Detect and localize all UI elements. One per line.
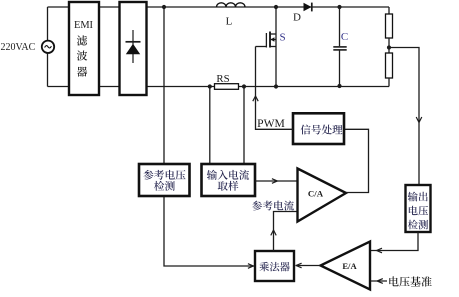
wire divider bottom lead xyxy=(388,78,390,87)
label 信号处理 xyxy=(301,125,343,135)
label 参考电流 (reference current) xyxy=(252,201,294,211)
svg-text:C: C xyxy=(341,31,348,43)
node RS-right (bottom rail junction) xyxy=(242,84,246,88)
svg-text:EMI: EMI xyxy=(74,20,94,31)
block signal processing (信号处理) xyxy=(293,113,344,144)
label 输入电流 xyxy=(207,170,249,180)
svg-text:220VAC: 220VAC xyxy=(1,42,36,53)
svg-text:RS: RS xyxy=(216,73,229,85)
arrow up on PWM drive xyxy=(253,96,258,101)
label 器 xyxy=(77,67,87,77)
wire multiplier output to C/A xyxy=(274,212,298,252)
wire divider top lead xyxy=(388,7,390,14)
label 波 xyxy=(77,50,87,60)
node RS-left (bottom rail junction) xyxy=(208,84,212,88)
wire bottom rail (return) xyxy=(48,86,390,88)
label D xyxy=(293,12,301,24)
node C-top (capacitor top junction) xyxy=(337,5,341,9)
label 检测 xyxy=(408,220,428,230)
svg-text:S: S xyxy=(279,32,285,44)
wire RS left sense lead xyxy=(209,87,211,165)
wire voltage reference input xyxy=(371,280,388,282)
label 检测 (line2) xyxy=(154,181,175,191)
capacitor C xyxy=(333,7,346,87)
label 220VAC xyxy=(1,42,36,53)
label 滤 xyxy=(77,35,87,45)
wire node A to reference-voltage-detect block xyxy=(163,7,165,164)
node A (top rail junction to reference voltage detect) xyxy=(162,5,166,9)
wire tap to output-voltage-detect xyxy=(389,48,419,186)
bridge rectifier block xyxy=(120,2,147,95)
wire RS right sense lead xyxy=(243,87,245,165)
wire reference-voltage-detect to multiplier xyxy=(164,196,254,266)
wire C/A output to signal processing xyxy=(344,129,369,192)
label C xyxy=(341,31,348,43)
arrow into E/A upper input xyxy=(377,248,383,253)
arrow into E/A lower input xyxy=(377,279,383,284)
resistor R1 (output divider upper) xyxy=(386,14,393,38)
label 参考电压 xyxy=(143,170,185,180)
label 取样 (line2) xyxy=(218,181,239,191)
arrow up on multiplier output xyxy=(271,230,276,235)
arrow into multiplier right input xyxy=(296,263,302,268)
resistor R2 (output divider lower) xyxy=(386,53,393,78)
svg-text:L: L xyxy=(226,16,233,28)
svg-text:D: D xyxy=(293,12,301,24)
node MOSFET source junction xyxy=(274,84,278,88)
wire output-detect to E/A input xyxy=(371,232,419,251)
diode D (boost diode) xyxy=(304,3,312,12)
transistor S (power MOSFET) xyxy=(266,7,276,87)
arrow down into output-voltage-detect xyxy=(416,117,422,123)
label E/A xyxy=(342,261,357,271)
op-amp E/A (error amplifier) xyxy=(321,242,371,290)
label PWM xyxy=(257,117,285,130)
label S xyxy=(279,32,285,44)
label L xyxy=(226,16,233,28)
svg-text:PWM: PWM xyxy=(257,117,285,130)
svg-text:E/A: E/A xyxy=(342,261,357,271)
label 乘法器 xyxy=(259,262,289,272)
wire top rail (rectifier output to boost input) xyxy=(48,6,390,8)
wire PWM drive to gate xyxy=(256,47,294,130)
wire left vertical from AC source xyxy=(47,7,49,87)
node B (drain junction on top rail) xyxy=(274,5,278,9)
label EMI xyxy=(74,20,94,31)
label 电压基准 (voltage reference) xyxy=(389,276,431,286)
wire divider middle lead xyxy=(388,38,390,53)
label C/A xyxy=(308,189,324,199)
arrow on sample wire xyxy=(272,179,278,184)
label RS xyxy=(216,73,229,85)
label 电压 xyxy=(409,206,428,216)
node divider tap xyxy=(387,45,391,49)
label 输出 xyxy=(408,192,428,202)
arrow into multiplier left input xyxy=(248,264,254,269)
AC source V1 220VAC xyxy=(42,41,54,53)
inductor L xyxy=(217,3,246,7)
block EMI filter (EMI滤波器) xyxy=(69,2,99,95)
block reference voltage detect (参考电压检测) xyxy=(139,164,190,196)
wire E/A output to multiplier xyxy=(296,265,321,267)
wire sample to C/A input xyxy=(255,180,298,182)
block output voltage detect (输出电压检测) xyxy=(406,185,431,232)
block input current sample (输入电流取样) xyxy=(202,164,256,196)
node C-bottom (capacitor bottom junction) xyxy=(337,84,341,88)
op-amp C/A (current amplifier) xyxy=(298,169,347,222)
wire gate lead xyxy=(256,46,267,48)
block multiplier (乘法器) xyxy=(255,251,294,281)
diode (rectifier symbol) xyxy=(126,30,141,63)
svg-text:C/A: C/A xyxy=(308,189,324,199)
resistor RS (current sense) xyxy=(215,84,239,90)
